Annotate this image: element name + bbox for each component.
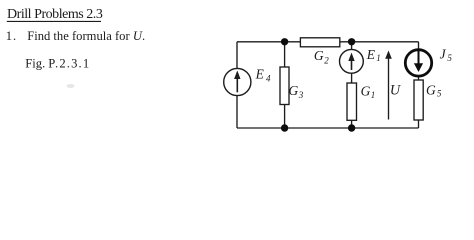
voltage arrow U <box>385 51 402 120</box>
node dot: G3 bottom <box>281 124 288 131</box>
node dot: E1 top <box>348 38 355 45</box>
node dot: G1 bottom <box>348 124 355 131</box>
svg-text:4: 4 <box>266 73 271 83</box>
resistor G3 <box>280 67 304 105</box>
svg-text:J: J <box>440 46 447 61</box>
svg-text:5: 5 <box>447 53 452 63</box>
wire: G3 branch <box>284 42 286 128</box>
svg-text:Fig.: Fig. <box>25 57 45 71</box>
wire: left branch (E4) <box>236 42 238 128</box>
svg-text:P.2.3.1: P.2.3.1 <box>48 57 90 71</box>
wire: top rail <box>237 41 419 43</box>
svg-text:1: 1 <box>371 90 376 100</box>
svg-text:2: 2 <box>324 55 329 65</box>
current source E1 <box>340 47 381 73</box>
resistor G2 (horizontal, in top rail) <box>300 38 339 66</box>
node dot: G3 top <box>281 38 288 45</box>
resistor G1 <box>347 83 375 120</box>
svg-text:Drill Problems 2.3: Drill Problems 2.3 <box>7 7 103 22</box>
figure caption <box>25 57 90 71</box>
svg-text:5: 5 <box>437 88 442 98</box>
item 1 text <box>6 29 145 43</box>
resistor G5 <box>414 80 442 120</box>
wire: J5/G5 branch <box>418 42 420 128</box>
current source J5 (bold) <box>405 46 452 76</box>
svg-text:U: U <box>390 83 402 99</box>
svg-text:E: E <box>255 66 265 81</box>
svg-text:G: G <box>361 83 371 98</box>
svg-text:3: 3 <box>298 90 304 100</box>
title: Drill Problems 2.3 (underlined) <box>7 7 103 22</box>
svg-text:G: G <box>289 83 299 98</box>
wire: bottom rail <box>237 127 419 129</box>
faint smudge artifact <box>67 84 75 88</box>
wire: E1/G1 branch <box>351 42 353 128</box>
svg-text:Find the formula for U.: Find the formula for U. <box>27 29 145 43</box>
current source E4 <box>224 66 271 95</box>
svg-text:E: E <box>366 47 376 62</box>
svg-text:1: 1 <box>376 53 381 63</box>
svg-text:G: G <box>314 48 324 63</box>
svg-text:1.: 1. <box>6 29 17 43</box>
svg-text:G: G <box>426 82 436 97</box>
